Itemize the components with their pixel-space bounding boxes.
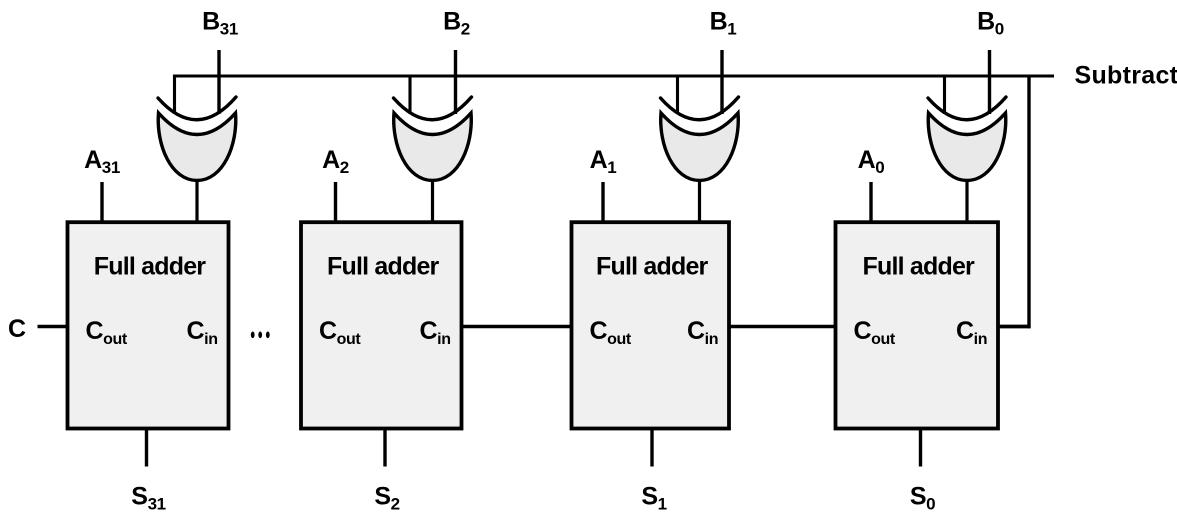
svg-text:Full adder: Full adder	[596, 253, 709, 281]
svg-text:C: C	[8, 315, 26, 343]
wire: A1 input	[601, 182, 604, 224]
wire: A0 input	[869, 182, 872, 224]
full adder FA2 box	[301, 222, 462, 428]
svg-text:S1: S1	[641, 483, 666, 514]
full adder FA1 box	[572, 222, 730, 428]
svg-text:Subtract: Subtract	[1075, 62, 1177, 90]
wire: sum output S31	[145, 427, 148, 467]
wire: XOR X0 output to full adder B input	[965, 179, 968, 224]
svg-text:Full adder: Full adder	[327, 253, 440, 281]
wire: bus bend down into XOR X31 left input	[173, 75, 176, 115]
wire: A31 input	[100, 182, 103, 224]
wire: B31 input	[217, 50, 220, 114]
wire: bus branch to XOR X0 left input	[943, 76, 946, 114]
svg-text:A0: A0	[858, 146, 885, 177]
wire: B1 input	[720, 50, 723, 114]
wire: bus branch to XOR X2 left input	[408, 76, 411, 114]
xor gate X0	[928, 97, 1006, 181]
ellipsis: continuation dots between FA31 and FA2	[251, 332, 270, 339]
svg-text:Full adder: Full adder	[863, 253, 976, 281]
wire: Subtract bus (horizontal)	[173, 74, 1054, 77]
wire: Subtract feeder down to FA0 Cin (vertical)	[1027, 75, 1030, 329]
xor gate X1	[661, 97, 739, 181]
wire: sum output S2	[383, 427, 386, 467]
svg-text:S0: S0	[910, 483, 935, 514]
svg-text:A31: A31	[84, 146, 120, 177]
wire: A2 input	[334, 182, 337, 224]
wire: sum output S0	[919, 427, 922, 467]
full adder FA0 box	[836, 222, 999, 428]
svg-text:B2: B2	[443, 8, 470, 39]
svg-text:B1: B1	[710, 8, 737, 39]
svg-text:A2: A2	[322, 146, 349, 177]
wire: sum output S1	[650, 427, 653, 467]
svg-text:A1: A1	[590, 146, 617, 177]
wire: carry between FA2 Cin and FA1 Cout	[460, 325, 573, 328]
wire: XOR X1 output to full adder B input	[698, 179, 701, 224]
wire: B0 input	[988, 50, 991, 114]
wire: B2 input	[454, 50, 457, 114]
svg-text:B31: B31	[202, 8, 238, 39]
wire: XOR X31 output to full adder B input	[195, 179, 198, 224]
xor gate X2	[394, 97, 472, 181]
full adder FA31 box	[68, 222, 229, 428]
svg-text:S2: S2	[374, 483, 399, 514]
svg-text:B0: B0	[977, 8, 1004, 39]
wire: bus branch to XOR X1 left input	[676, 76, 679, 114]
wire: XOR X2 output to full adder B input	[431, 179, 434, 224]
wire: carry between FA1 Cin and FA0 Cout	[728, 325, 838, 328]
svg-text:S31: S31	[131, 483, 165, 514]
xor gate X31	[158, 97, 236, 181]
wire: carry out C (left)	[38, 325, 70, 328]
svg-text:Full adder: Full adder	[94, 253, 207, 281]
wire: Subtract feeder into FA0 Cin (horizontal)	[997, 325, 1031, 329]
